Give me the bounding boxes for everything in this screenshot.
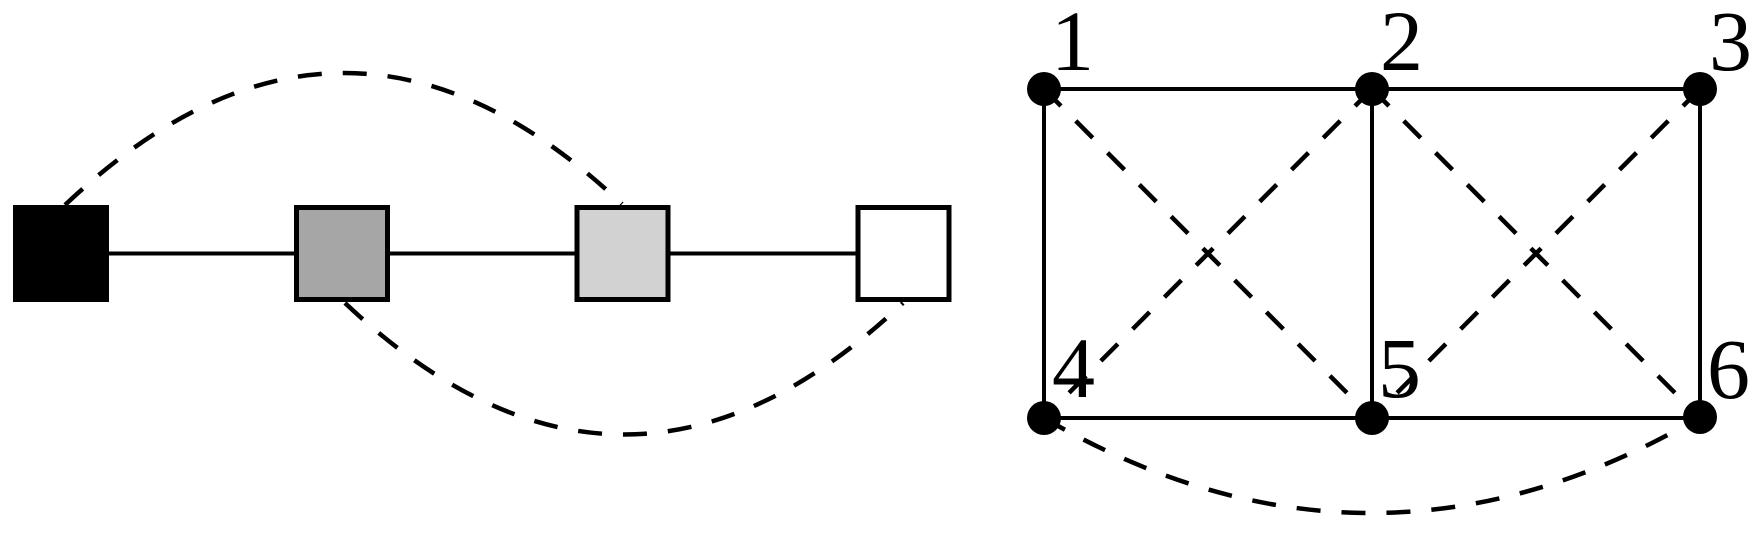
wire: dashed top arc square1 to square3 [65,73,622,205]
node 2 dot [1355,72,1389,106]
wire: solid edge 4-5 [1044,416,1372,420]
wire: dashed bottom arc square2 to square4 [345,303,903,435]
wire: dashed arc 4-6 [1044,417,1700,513]
node: dark gray square 2 [297,208,388,300]
node: light gray square 3 [577,208,668,300]
node 4 dot [1027,401,1061,435]
node 3 dot [1683,72,1717,106]
node 5 dot [1355,401,1389,435]
node 6 dot [1683,400,1717,434]
wire: solid edge 1-4 [1042,89,1046,418]
svg-text:1: 1 [1051,0,1094,89]
wire: solid edge 1-2 [1044,87,1372,91]
wire: solid edge 3-6 [1698,89,1702,418]
wire: dashed edge 1-5 [1044,89,1372,418]
svg-text:3: 3 [1709,0,1752,89]
node 1 dot [1027,72,1061,106]
wire: dashed edge 2-6 [1372,89,1700,418]
svg-text:5: 5 [1378,320,1421,416]
svg-text:6: 6 [1707,321,1750,417]
wire: solid edge 2-5 [1370,89,1374,418]
wire: dashed edge 2-4 [1044,89,1372,418]
wire: dashed edge 3-5 [1372,89,1700,418]
wire: solid chain line [61,252,904,256]
svg-text:4: 4 [1052,320,1095,416]
svg-text:2: 2 [1380,0,1423,89]
node: black square 1 [16,208,107,300]
node: white square 4 [858,208,949,300]
wire: solid edge 2-3 [1372,87,1700,91]
wire: solid edge 5-6 [1372,416,1700,420]
